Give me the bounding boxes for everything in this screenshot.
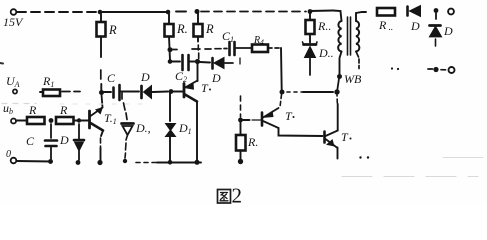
svg-text:UA: UA xyxy=(6,74,20,89)
svg-text:R: R xyxy=(59,103,68,117)
node junction D2/D5/T1 base xyxy=(169,89,174,94)
wire node to T3 base xyxy=(81,120,89,122)
svg-text:T.1: T.1 xyxy=(104,111,117,126)
svg-text:R: R xyxy=(205,22,214,36)
wire R6 to node xyxy=(74,120,77,122)
svg-text:D: D xyxy=(140,70,150,84)
wire dash to output terminal - xyxy=(441,69,446,71)
resistor R1h xyxy=(40,91,43,93)
node junction T3 emitter/ground xyxy=(97,160,102,165)
node R7 bottom dot xyxy=(238,159,243,164)
node junction R2/C2 xyxy=(168,59,173,64)
svg-text:D1: D1 xyxy=(178,121,192,136)
wire C2 to node xyxy=(190,61,195,63)
capacitor C1 xyxy=(228,42,231,55)
wire top rail solid to R2 xyxy=(100,11,168,13)
scan speck left edge xyxy=(0,62,3,65)
wire mid rail dashes xyxy=(287,91,303,93)
resistor R3 xyxy=(197,13,199,24)
wire tick to R7 branch xyxy=(239,58,241,64)
wire C1 branch dashed xyxy=(172,49,227,50)
wire dash to output node xyxy=(428,68,433,70)
node junction T1 emitter/ground xyxy=(195,160,200,165)
node junction top of R2 xyxy=(166,10,171,15)
wire ground rail dashes xyxy=(136,162,156,164)
zener D7 xyxy=(430,24,441,27)
node junction top of R3 xyxy=(195,9,200,14)
resistor R6 xyxy=(56,117,74,124)
node junction C4/ground xyxy=(48,159,53,164)
wire secondary bottom dashed xyxy=(356,52,359,69)
node +15V supply terminal xyxy=(11,9,17,15)
wire top rail to transformer xyxy=(310,10,333,13)
svg-text:R ..: R .. xyxy=(378,18,393,32)
svg-text:D: D xyxy=(211,71,221,85)
wire D2 to node xyxy=(153,91,169,94)
wire R7 branch dashed xyxy=(240,96,242,117)
resistor R2 xyxy=(168,14,170,24)
wire node to D xyxy=(200,61,210,64)
node ground terminal xyxy=(11,158,17,164)
wire top rail dash xyxy=(176,11,186,13)
wire down to bottom mid rail xyxy=(280,48,283,90)
transistor T1 xyxy=(183,84,186,98)
resistor R9 snubber xyxy=(309,14,311,21)
caption 图2 (drawn glyph) xyxy=(218,190,231,204)
node junction R1/C3/T3 collector xyxy=(99,90,104,95)
node junction D4/ground xyxy=(123,159,127,163)
node output terminal + xyxy=(448,9,454,15)
wire R4 to corner dashed xyxy=(268,47,280,49)
wire C3 to D2 xyxy=(121,91,139,93)
wire C1 to R4 xyxy=(236,47,252,49)
node output terminal - xyxy=(449,67,455,73)
node junction R7/T2 base xyxy=(238,118,243,123)
wire ground rail center xyxy=(157,162,201,164)
transistor T3 xyxy=(88,111,91,128)
wire R1h dashes xyxy=(62,91,80,93)
node junction C1 branch tap xyxy=(168,47,173,52)
resistor R7 xyxy=(240,122,242,135)
wire D output xyxy=(225,62,233,64)
capacitor C4 xyxy=(50,124,52,138)
svg-text:D: D xyxy=(443,24,453,38)
svg-text:R: R xyxy=(28,103,37,117)
node junction R5/R6/C4 xyxy=(49,118,54,123)
svg-text:R..: R.. xyxy=(317,19,331,33)
wire D8 down xyxy=(309,59,311,76)
node junction D6/D7/output xyxy=(434,8,439,13)
svg-text:D..: D.. xyxy=(318,46,334,60)
node U_A terminal xyxy=(13,89,17,93)
svg-text:R4: R4 xyxy=(253,35,264,47)
capacitor C3 xyxy=(112,88,115,98)
svg-text:D: D xyxy=(410,19,420,33)
resistor R4 xyxy=(252,45,268,53)
svg-text:0: 0 xyxy=(6,149,11,160)
diode D4 (to ground) xyxy=(122,122,134,125)
node junction C2/D/T1 collector xyxy=(195,59,200,64)
wire D5 to rail xyxy=(169,137,171,160)
wire mid rail left dot xyxy=(280,90,285,95)
wire D4 branch dashed down xyxy=(122,93,127,120)
wire primary bottom xyxy=(340,52,342,75)
wire stub node to D7 xyxy=(435,13,437,19)
svg-text:WB: WB xyxy=(344,72,362,86)
transistor T4 xyxy=(323,132,326,143)
wire top rail dashed to snubber xyxy=(201,11,306,13)
svg-text:C2: C2 xyxy=(175,69,187,84)
svg-text:C1: C1 xyxy=(222,29,234,44)
transformer MB secondary winding xyxy=(356,21,359,52)
svg-text:R.: R. xyxy=(176,22,188,36)
transistor T2 xyxy=(243,119,250,121)
node junction top of R1 xyxy=(98,10,103,15)
wire D7 down dashed xyxy=(435,39,437,46)
svg-text:2: 2 xyxy=(232,184,243,205)
zener D8 snubber xyxy=(304,43,317,46)
diode D3 xyxy=(78,124,80,139)
node junction output bottom xyxy=(433,67,438,72)
svg-text:T: T xyxy=(341,130,349,144)
svg-text:R: R xyxy=(108,23,117,37)
svg-text:C: C xyxy=(26,134,35,148)
zener D5 xyxy=(169,94,171,122)
node junction transformer/T4 collector xyxy=(334,89,339,94)
node junction R6/D3/T3 base xyxy=(77,118,81,122)
svg-text:C: C xyxy=(107,71,116,85)
resistor R5 xyxy=(27,117,45,124)
svg-text:R1: R1 xyxy=(42,74,54,89)
svg-text:R.: R. xyxy=(247,135,258,149)
wire R2 bottom to C2 xyxy=(171,61,180,63)
node input terminal xyxy=(11,119,16,124)
wire primary bottom to rail xyxy=(337,79,339,91)
svg-text:T: T xyxy=(285,109,293,123)
svg-text:D.,: D., xyxy=(135,121,151,135)
wire secondary return specks xyxy=(391,67,393,69)
node junction D3/ground xyxy=(76,160,81,165)
transformer core xyxy=(348,17,351,55)
wire D4 to ground dashed xyxy=(125,135,128,158)
wire top rail dashed from terminal xyxy=(17,11,97,13)
resistor R1 xyxy=(100,14,102,22)
node junction D5/ground xyxy=(168,160,173,165)
node junction top of R7 snubber xyxy=(308,9,313,14)
diode D (series, cathode left) xyxy=(211,58,214,69)
svg-text:D: D xyxy=(59,133,69,147)
wire node to C3 xyxy=(104,91,111,93)
resistor R8 xyxy=(377,8,395,16)
node junction primary bottom xyxy=(337,74,342,79)
wire ground rail left xyxy=(17,160,53,163)
diode D6 (cathode left) xyxy=(406,7,409,16)
svg-text:15V: 15V xyxy=(3,15,24,29)
capacitor C2 xyxy=(181,55,184,70)
wire input to R5 xyxy=(16,120,27,122)
wire secondary top xyxy=(356,12,366,21)
scan artifact streaks xyxy=(342,176,478,178)
svg-text:T: T xyxy=(201,81,209,95)
diode D2 (cathode left) xyxy=(140,86,143,98)
node specks right of T4 emitter xyxy=(359,156,361,158)
wire mid rail solid xyxy=(303,91,333,93)
transformer MB primary winding xyxy=(333,11,342,22)
